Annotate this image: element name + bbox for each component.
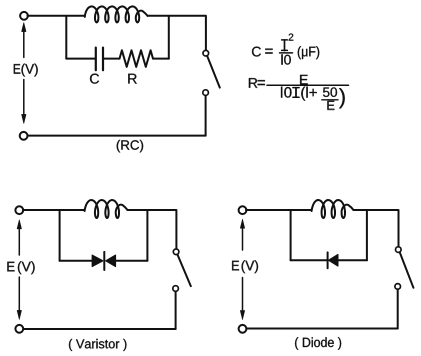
wire top from terminal to coil	[23, 209, 85, 211]
node left of parallel branch	[65, 16, 67, 59]
node right of diode branch	[366, 210, 368, 260]
formula mini numerator 50	[323, 87, 337, 97]
wire bottom (varistor ckt)	[23, 328, 176, 330]
switch S3 top contact	[396, 247, 402, 253]
formula denominator 10 (line 1)	[281, 54, 290, 64]
label ( Diode )	[295, 337, 341, 350]
wire diode to right node	[338, 259, 367, 261]
switch S3 bottom contact	[395, 284, 401, 290]
formula closing paren	[339, 88, 345, 108]
label E(V) (varistor source)	[7, 262, 14, 272]
formula denominator 10 (line 2)	[281, 87, 292, 98]
label (RC)	[117, 140, 143, 153]
label ( Varistor )	[69, 339, 126, 351]
varistor RV (back-to-back diodes)	[92, 252, 115, 270]
formula = (line 2)	[258, 80, 265, 85]
formula denominator (1+	[301, 87, 316, 101]
wire branch left to diode	[291, 259, 327, 261]
arrow down (diode E source)	[240, 278, 244, 320]
switch S1 bottom contact	[203, 90, 209, 96]
switch S2 blade	[177, 254, 190, 286]
switch S1 top contact	[203, 50, 209, 56]
wire branch left to varistor	[60, 260, 93, 262]
switch S1 blade (open)	[207, 56, 220, 88]
wire switch to bottom	[175, 292, 177, 330]
terminal top-left (diode ckt)	[239, 206, 247, 214]
inductor L3 (3-loop coil)	[312, 200, 354, 218]
wire top from terminal to coil	[28, 15, 85, 17]
formula = (line 1)	[265, 49, 272, 54]
arrow up (E source, upper)	[22, 23, 26, 58]
switch S2 top contact	[173, 249, 179, 255]
capacitor C (two plates)	[96, 48, 103, 71]
terminal bottom-left	[20, 132, 28, 140]
formula (uF)	[298, 46, 319, 59]
arrow down (E source, lower)	[22, 80, 26, 124]
node right of parallel branch	[168, 16, 170, 59]
label E(V) (RC source)	[14, 64, 20, 74]
wire top from coil to corner down to switch	[354, 210, 399, 247]
wire top from coil to right corner down to switch	[148, 16, 206, 50]
wire capacitor to resistor	[104, 58, 120, 60]
arrow up (diode E source)	[240, 219, 244, 250]
wire switch to bottom	[397, 289, 399, 328]
formula superscript 2	[289, 34, 294, 41]
wire bottom (diode ckt)	[246, 328, 398, 330]
fraction bar of R formula	[267, 84, 349, 86]
wire branch left to capacitor	[66, 58, 95, 60]
terminal bottom-left (varistor ckt)	[15, 325, 23, 333]
terminal top-left	[20, 12, 28, 20]
serif I in denominator (drawn)	[293, 88, 299, 98]
node right of varistor branch	[146, 210, 148, 261]
arrow up (varistor E source)	[17, 220, 21, 255]
diode D1 (cathode bar left, triangle points left)	[328, 252, 338, 268]
label E(V) paren part (varistor source)	[18, 261, 35, 274]
switch S3 blade	[400, 252, 414, 288]
terminal top-left (varistor ckt)	[15, 206, 23, 214]
formula text R	[249, 78, 257, 88]
formula numerator E	[300, 75, 308, 85]
wire varistor to right node	[116, 260, 148, 262]
wire top from coil to corner down to switch	[128, 210, 177, 249]
wire top from terminal to coil	[246, 209, 312, 211]
resistor R zigzag	[120, 50, 154, 67]
label E(V) paren part (diode source)	[242, 260, 258, 273]
serif I numerator (drawn)	[282, 40, 288, 51]
wire from switch to bottom	[205, 96, 207, 136]
wire resistor to right node	[153, 58, 169, 60]
inductor L1 (5-loop coil)	[85, 6, 148, 22]
arrow down (varistor E source)	[17, 277, 21, 319]
label E(V) paren part (RC source)	[22, 64, 38, 77]
node left of diode branch	[290, 210, 292, 260]
terminal bottom-left (diode ckt)	[239, 325, 247, 333]
label R	[128, 74, 136, 84]
formula mini denominator E	[327, 101, 334, 110]
fraction bar of C formula	[280, 52, 293, 54]
mini fraction bar 50/E	[322, 99, 338, 101]
inductor L2 (3-loop coil)	[85, 200, 128, 218]
switch S2 bottom contact	[173, 286, 179, 292]
node left of varistor branch	[59, 210, 61, 261]
formula text C	[252, 47, 261, 57]
label C	[90, 74, 99, 84]
label E(V) (diode source)	[232, 261, 239, 271]
wire bottom	[27, 135, 206, 137]
